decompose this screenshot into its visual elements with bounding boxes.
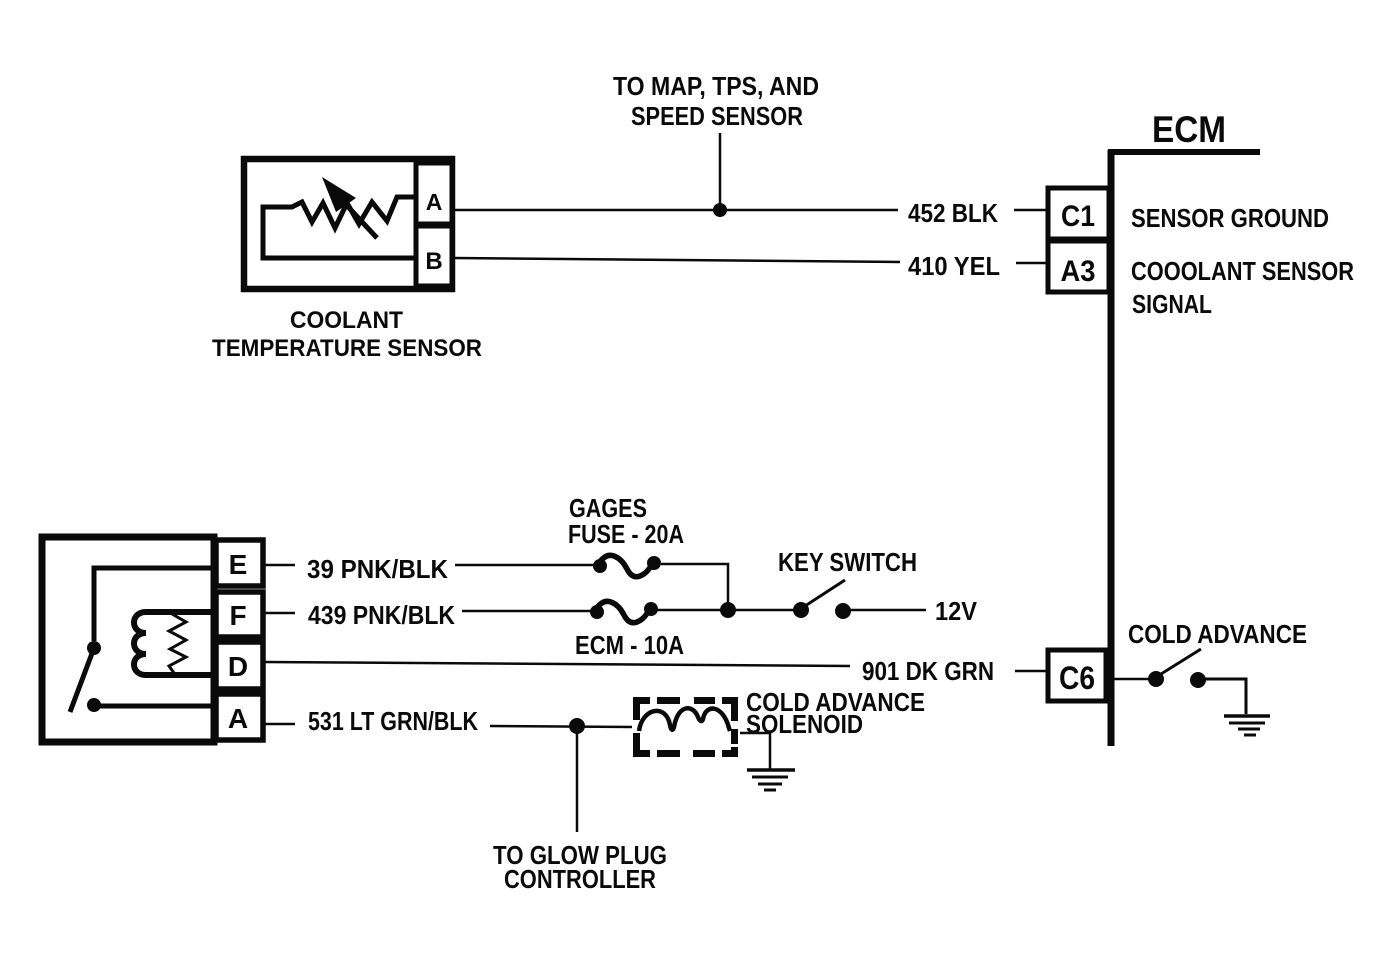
wire contact to pin A	[94, 704, 216, 709]
svg-text:COOOLANT SENSOR: COOOLANT SENSOR	[1131, 256, 1354, 286]
wire to MAP/TPS/speed sensor	[719, 133, 722, 210]
pin D	[216, 642, 263, 689]
fuse GAGES 20A	[593, 555, 661, 576]
resistor (sensor element)	[263, 197, 416, 258]
svg-text:FUSE - 20A: FUSE - 20A	[568, 519, 684, 549]
svg-text:COLD ADVANCE: COLD ADVANCE	[1128, 619, 1307, 649]
coolant temperature sensor connector box	[244, 159, 452, 289]
ECM connector line	[1108, 150, 1260, 746]
label: COOLANT TEMPERATURE SENSOR	[212, 307, 482, 362]
wire 439 PNK/BLK to ECM fuse	[462, 610, 594, 613]
cold advance switch	[1114, 649, 1206, 688]
wire cold advance switch to ground	[1205, 679, 1246, 714]
wire junction to key switch	[728, 609, 800, 612]
wire stub pin A (switch)	[263, 723, 295, 726]
node: junction to MAP/TPS	[713, 203, 727, 217]
label COLD ADVANCE SOLENOID	[746, 687, 925, 739]
svg-text:ECM - 10A: ECM - 10A	[575, 630, 684, 660]
svg-text:A3: A3	[1061, 255, 1096, 288]
switch wire from pin E	[94, 568, 216, 641]
svg-text:C1: C1	[1061, 200, 1095, 233]
switch pivot node	[87, 641, 101, 655]
wire gages fuse to junction	[661, 564, 728, 611]
svg-text:SENSOR GROUND: SENSOR GROUND	[1131, 203, 1329, 233]
wire to 12V	[850, 609, 926, 612]
svg-text:D: D	[228, 651, 248, 682]
svg-text:A: A	[426, 189, 443, 215]
svg-text:410 YEL: 410 YEL	[908, 251, 1000, 281]
svg-text:TO MAP, TPS, AND: TO MAP, TPS, AND	[613, 71, 819, 101]
label COOOLANT SENSOR SIGNAL	[1131, 256, 1354, 319]
switch blade	[70, 648, 94, 712]
solenoid coil winding	[639, 708, 730, 731]
wiper arrow	[322, 177, 377, 238]
svg-text:901 DK GRN: 901 DK GRN	[862, 656, 994, 686]
svg-text:TEMPERATURE SENSOR: TEMPERATURE SENSOR	[212, 335, 482, 362]
svg-text:439 PNK/BLK: 439 PNK/BLK	[308, 600, 455, 630]
svg-text:SPEED SENSOR: SPEED SENSOR	[631, 101, 803, 131]
ground (cold advance)	[1224, 716, 1270, 735]
ECM pin C6	[1048, 650, 1106, 701]
ECM pin C1	[1048, 188, 1109, 239]
fuse ECM 10A	[590, 601, 658, 622]
pin A (switch)	[216, 694, 263, 740]
heater coil (between F and D)	[134, 612, 216, 675]
svg-text:B: B	[425, 248, 442, 275]
pin A (sensor)	[416, 163, 452, 224]
wire 39 PNK/BLK to gages fuse	[455, 564, 597, 567]
wire to glow plug controller	[576, 726, 579, 832]
switch contact node	[87, 698, 101, 712]
ECM pin A3	[1048, 241, 1109, 292]
pin B (sensor)	[416, 226, 452, 286]
svg-text:KEY SWITCH: KEY SWITCH	[778, 547, 917, 577]
wire 901 DK GRN (pin D to ECM C6)	[263, 662, 850, 666]
wire 410 YEL (pin B to ECM A3)	[454, 258, 900, 262]
svg-text:F: F	[229, 600, 246, 631]
svg-text:COOLANT: COOLANT	[290, 307, 403, 334]
svg-text:SOLENOID: SOLENOID	[746, 709, 863, 739]
svg-text:A: A	[228, 703, 248, 734]
wire stub pin E	[263, 564, 295, 567]
label TO GLOW PLUG CONTROLLER	[493, 840, 667, 894]
wire 452 BLK (pin A to ECM C1)	[454, 209, 898, 212]
heater resistor zigzag	[169, 614, 186, 673]
wire stub into C6	[1015, 670, 1047, 673]
wire ecm fuse to junction	[651, 609, 728, 612]
svg-text:E: E	[229, 549, 248, 580]
key switch	[793, 580, 851, 619]
label: TO MAP, TPS, AND SPEED SENSOR	[613, 71, 819, 131]
wire 531 LT GRN/BLK to solenoid	[490, 726, 632, 727]
wire solenoid to ground	[740, 733, 770, 769]
svg-text:CONTROLLER: CONTROLLER	[504, 864, 656, 894]
temperature switch connector box (bottom left)	[42, 537, 214, 742]
pin E	[216, 540, 263, 586]
wire stub into A3	[1016, 262, 1047, 265]
svg-text:531 LT GRN/BLK: 531 LT GRN/BLK	[308, 706, 478, 736]
svg-text:C6: C6	[1059, 660, 1095, 696]
junction node (fuses)	[720, 602, 736, 618]
label GAGES FUSE - 20A	[568, 493, 684, 549]
ground (solenoid)	[747, 770, 795, 790]
wire stub into C1	[1014, 209, 1047, 212]
svg-text:ECM: ECM	[1152, 109, 1226, 150]
cold advance solenoid (dashed box)	[633, 697, 738, 757]
junction node (glow plug tap)	[569, 718, 585, 734]
wire stub pin F	[263, 612, 295, 615]
pin F	[216, 592, 263, 637]
svg-text:SIGNAL: SIGNAL	[1132, 289, 1212, 319]
svg-text:12V: 12V	[935, 596, 978, 626]
svg-text:39 PNK/BLK: 39 PNK/BLK	[307, 554, 448, 584]
svg-text:452 BLK: 452 BLK	[908, 198, 998, 228]
